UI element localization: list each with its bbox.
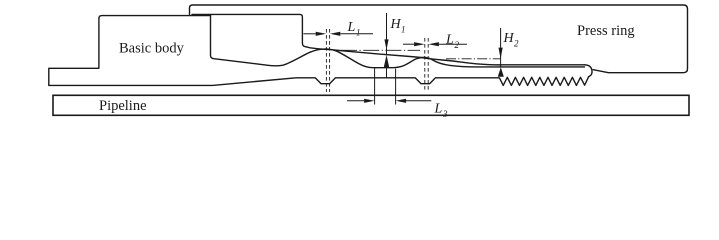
basic body right edge and interior profile wave xyxy=(211,15,585,68)
svg-text:1: 1 xyxy=(356,28,361,38)
svg-text:L: L xyxy=(347,20,356,35)
svg-text:Pipeline: Pipeline xyxy=(99,98,147,114)
dimension H2: lower up arrow xyxy=(498,67,504,77)
groove 2 dashed centerline pair xyxy=(425,38,428,91)
basic body block outline xyxy=(49,16,211,85)
svg-text:3: 3 xyxy=(442,109,448,119)
svg-text:L: L xyxy=(445,32,454,47)
svg-text:H: H xyxy=(390,17,402,32)
svg-text:Press ring: Press ring xyxy=(577,23,635,39)
groove 1 dashed centerline pair xyxy=(326,29,329,92)
press ring band bottom line, nose and pipe outer surface (squeezed) xyxy=(192,14,585,64)
dimension H1: lower up arrow and stem xyxy=(384,55,389,67)
svg-text:2: 2 xyxy=(455,40,460,50)
serrated strip right end hook xyxy=(585,65,593,77)
dimension L3: line, arrows xyxy=(347,100,431,102)
dimension L3: extension lines xyxy=(375,68,396,105)
press ring outer outline xyxy=(190,5,688,73)
dimension H1: upper line with down arrow to centerline xyxy=(386,13,388,55)
svg-text:L: L xyxy=(434,102,443,117)
centerline B (dash-dot) xyxy=(446,58,500,60)
svg-text:2: 2 xyxy=(514,39,519,49)
svg-text:H: H xyxy=(503,31,515,46)
svg-text:Basic body: Basic body xyxy=(119,41,185,57)
dimension L2: line, arrows xyxy=(403,43,467,45)
centerline A (dash-dot) xyxy=(341,49,420,51)
pipeline rectangle xyxy=(53,95,689,115)
dimension H2: upper line with down arrow to centerline xyxy=(500,28,502,67)
dimension L1: line, arrows xyxy=(304,33,374,35)
svg-text:1: 1 xyxy=(401,25,406,35)
pipe inner wall with crimp notches and serration zigzag xyxy=(49,77,589,86)
